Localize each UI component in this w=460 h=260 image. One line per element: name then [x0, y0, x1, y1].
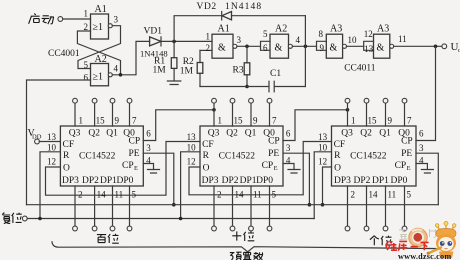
一 — [411, 246, 418, 248]
svg-text:DP0: DP0 — [117, 176, 134, 186]
svg-text:5: 5 — [272, 190, 277, 200]
nand gate A3 (first) CC4011 — [317, 24, 347, 59]
svg-text:CP: CP — [122, 161, 134, 171]
svg-text:E: E — [407, 165, 411, 172]
IC U3 CC14522 (units counter) — [332, 126, 417, 186]
置 — [243, 252, 251, 259]
node VDD terminal — [28, 128, 42, 144]
IC3 top pins Q3 Q2 Q1 Q0 with terminals — [345, 98, 407, 126]
svg-text:14: 14 — [235, 190, 245, 200]
svg-text:CC14522: CC14522 — [219, 152, 256, 162]
svg-text:1: 1 — [206, 32, 211, 42]
svg-text:2: 2 — [351, 190, 356, 200]
svg-text:10: 10 — [47, 143, 57, 153]
junction VD1/R1/VD2 node — [172, 40, 176, 44]
svg-text:www.dzsc.com: www.dzsc.com — [398, 252, 451, 260]
svg-text:9: 9 — [115, 116, 120, 126]
svg-text:VD2: VD2 — [197, 2, 217, 12]
svg-text:12: 12 — [187, 157, 196, 167]
svg-text:CP: CP — [129, 137, 141, 147]
wire A2 pin6 from preset bus — [27, 80, 91, 205]
IC U1 CC14522 (hundreds counter) — [60, 126, 143, 186]
wire IC3 O pin12 to preset bus — [323, 167, 332, 205]
svg-text:13: 13 — [364, 44, 374, 54]
svg-text:PE: PE — [268, 149, 279, 159]
svg-text:10: 10 — [187, 143, 197, 153]
node 个位 (units digit) label — [370, 236, 392, 246]
svg-text:O: O — [334, 164, 341, 174]
IC1 top pins Q3 Q2 Q1 Q0 with terminals — [73, 98, 132, 126]
junction R3 top — [245, 45, 249, 49]
svg-text:6: 6 — [286, 129, 291, 139]
wire A3b out to Uo terminal — [394, 45, 442, 47]
svg-text:10: 10 — [318, 143, 328, 153]
node 启动 (start) terminal — [29, 14, 63, 24]
svg-text:Q2: Q2 — [360, 129, 372, 139]
junction IC3 Q3 node — [346, 108, 350, 112]
junction IC1 R on reset line — [38, 217, 42, 221]
svg-text:7: 7 — [132, 116, 137, 126]
wire IC1 R pin10 to reset line — [40, 152, 60, 219]
svg-text:CF: CF — [63, 140, 75, 150]
junction IC2 PE on bus — [308, 203, 312, 207]
node 复位 (reset) terminal — [2, 213, 27, 224]
wire IC1 O pin12 to IC2 CF pin13 — [46, 142, 201, 196]
svg-text:12: 12 — [364, 29, 373, 39]
svg-text:2: 2 — [78, 190, 83, 200]
数 — [253, 252, 263, 260]
svg-text:10: 10 — [348, 35, 358, 45]
svg-text:R: R — [203, 151, 210, 161]
svg-text:4: 4 — [114, 64, 119, 74]
wire A2 output to VD1 — [112, 41, 149, 74]
resistor R2 1M — [180, 50, 203, 86]
svg-text:3: 3 — [286, 143, 291, 153]
wire IC2 PE pin3 to preset bus — [283, 153, 309, 205]
node 十位 (tens digit) label — [232, 231, 254, 241]
resistor R1 1M — [153, 41, 177, 80]
svg-text:DP0: DP0 — [256, 176, 273, 186]
位 — [12, 213, 22, 223]
svg-text:CP: CP — [262, 161, 274, 171]
svg-text:9: 9 — [388, 116, 393, 126]
svg-text:13: 13 — [187, 132, 197, 142]
svg-text:≥1: ≥1 — [93, 22, 104, 33]
svg-text:O: O — [63, 164, 70, 174]
nand gate A2 CC4011 — [261, 24, 293, 59]
svg-text:1: 1 — [351, 116, 356, 126]
svg-text:CP: CP — [268, 137, 280, 147]
svg-text:PE: PE — [129, 149, 140, 159]
svg-text:VD1: VD1 — [144, 27, 163, 37]
svg-text:1: 1 — [218, 116, 223, 126]
svg-text:6: 6 — [84, 73, 89, 83]
resistor R3 — [233, 46, 250, 86]
svg-text:&: & — [275, 43, 283, 54]
svg-text:DP2: DP2 — [354, 176, 371, 186]
svg-text:7: 7 — [272, 116, 277, 126]
svg-text:14: 14 — [369, 190, 379, 200]
diode VD1 1N4148 — [140, 27, 168, 59]
wire IC2 CPE pin4 to ground — [283, 164, 294, 170]
svg-text:14: 14 — [97, 190, 107, 200]
junction VD2/C1/A3 node — [304, 45, 308, 49]
svg-text:2: 2 — [206, 43, 211, 53]
junction Uo feedback node — [434, 45, 438, 49]
svg-text:E: E — [134, 165, 138, 172]
svg-text:DP0: DP0 — [391, 176, 408, 186]
watermark 维库一下 red text — [386, 241, 429, 250]
svg-text:A1: A1 — [218, 24, 230, 35]
wire IC2 CP pin6 from IC3 Q3 — [283, 110, 348, 141]
ground IC2 CPE — [288, 170, 300, 174]
svg-text:PE: PE — [401, 149, 412, 159]
ground below R1 — [167, 81, 180, 85]
svg-text:R: R — [63, 151, 70, 161]
位 — [244, 231, 255, 241]
svg-text:DP2: DP2 — [222, 176, 239, 186]
svg-text:6: 6 — [263, 43, 268, 53]
gate A2 CC4001 NOR — [91, 54, 113, 86]
svg-text:DP1: DP1 — [240, 176, 257, 186]
svg-text:13: 13 — [47, 132, 57, 142]
node 百位 (hundreds digit) label — [97, 234, 119, 243]
svg-text:2: 2 — [217, 190, 222, 200]
svg-text:DP2: DP2 — [82, 176, 99, 186]
svg-text:12: 12 — [47, 157, 56, 167]
svg-text:11: 11 — [388, 190, 397, 200]
svg-text:Q3: Q3 — [208, 129, 220, 139]
svg-text:CC4011: CC4011 — [344, 64, 376, 74]
svg-text:15: 15 — [368, 116, 378, 126]
svg-text:1: 1 — [84, 9, 89, 19]
svg-text:A2: A2 — [275, 24, 287, 35]
复 — [2, 213, 10, 224]
junction A2 output node — [119, 73, 123, 77]
svg-text:A3: A3 — [377, 24, 389, 35]
brace for 预置数 (preset number) — [52, 242, 450, 252]
wire A2 out to A3 in — [292, 45, 316, 47]
svg-text:4: 4 — [296, 35, 301, 45]
svg-text:Q3: Q3 — [69, 129, 81, 139]
svg-text:R3: R3 — [233, 66, 244, 76]
svg-text:8: 8 — [319, 29, 324, 39]
svg-text:11: 11 — [253, 190, 262, 200]
svg-text:CF: CF — [202, 140, 214, 150]
svg-text:DD: DD — [32, 134, 42, 141]
svg-text:3: 3 — [114, 15, 119, 25]
svg-text:1: 1 — [79, 116, 84, 126]
node Uo output terminal — [442, 41, 460, 54]
svg-text:DP3: DP3 — [202, 176, 219, 186]
svg-text:15: 15 — [96, 116, 106, 126]
wire Uo node down to IC3 CP — [416, 46, 436, 140]
svg-text:Q2: Q2 — [226, 129, 238, 139]
svg-text:&: & — [218, 43, 226, 54]
svg-text:3: 3 — [146, 143, 151, 153]
svg-text:5: 5 — [263, 29, 268, 39]
svg-text:Q1: Q1 — [379, 129, 391, 139]
svg-text:CP: CP — [395, 161, 407, 171]
svg-text:A3: A3 — [330, 24, 342, 35]
位 — [381, 236, 392, 246]
svg-text:5: 5 — [132, 190, 137, 200]
ground IC3 CPE — [421, 170, 433, 174]
IC2 bottom pins DP3 DP2 DP1 DP0 with terminals — [212, 186, 272, 231]
svg-text:DP1: DP1 — [372, 176, 389, 186]
wire A1 out to A2 in — [237, 45, 261, 47]
svg-text:Q3: Q3 — [341, 129, 353, 139]
IC U2 CC14522 (tens counter) — [200, 126, 283, 186]
wire IC1 CP pin6 from IC2 Q3 — [143, 110, 214, 141]
wire VDD to IC1 CF pin13 — [39, 141, 60, 143]
位 — [108, 234, 119, 243]
动 — [42, 16, 54, 24]
wire 启动 to A1 pin1 — [63, 18, 91, 20]
watermark seal (dzsc stamp) — [399, 228, 436, 246]
svg-text:9: 9 — [253, 116, 258, 126]
svg-text:5: 5 — [407, 190, 412, 200]
svg-text:Q1: Q1 — [106, 129, 118, 139]
svg-text:11: 11 — [398, 34, 407, 44]
svg-text:&: & — [330, 43, 338, 54]
wire A3a out to A3b in — [346, 45, 363, 47]
wire IC1 CPE pin4 to ground — [143, 164, 153, 170]
gate A1 CC4001 NOR — [91, 4, 113, 39]
svg-text:E: E — [274, 165, 278, 172]
node 预置数 label — [230, 252, 263, 260]
nand gate A3 (second) CC4011 — [364, 24, 394, 59]
svg-text:CC14522: CC14522 — [350, 152, 387, 162]
百 — [97, 235, 106, 243]
watermark mascot (monkey) — [427, 221, 456, 258]
capacitor C1 — [200, 69, 305, 92]
下 — [420, 242, 428, 250]
svg-text:R: R — [334, 151, 341, 161]
预 — [230, 252, 242, 260]
wire preset bus (PE/O common line) — [27, 204, 439, 206]
wire R2 top to A1(4011) pin2 — [200, 49, 212, 51]
wire IC3 CPE pin4 to ground — [416, 164, 427, 170]
svg-text:15: 15 — [234, 116, 244, 126]
svg-text:DP3: DP3 — [334, 176, 351, 186]
wire VD2 node down to C1 — [304, 16, 306, 87]
wire reset line to counters R pins — [27, 218, 314, 220]
ground IC1 CPE — [148, 170, 160, 174]
维 — [386, 241, 397, 250]
个 — [370, 236, 379, 246]
svg-text:6: 6 — [146, 129, 151, 139]
svg-text:1N4148: 1N4148 — [225, 2, 262, 12]
nand gate A1 CC4011 — [212, 24, 237, 59]
svg-text:A1: A1 — [95, 4, 107, 15]
svg-text:3: 3 — [419, 143, 424, 153]
svg-text:3: 3 — [237, 35, 242, 45]
库 — [398, 241, 407, 250]
wire IC3 R pin10 from reset line — [314, 152, 331, 219]
svg-text:Q2: Q2 — [88, 129, 100, 139]
svg-text:DP1: DP1 — [100, 176, 117, 186]
svg-text:C1: C1 — [270, 69, 281, 79]
启 — [29, 14, 40, 24]
svg-text:O: O — [203, 164, 210, 174]
junction IC3 O on bus — [321, 203, 325, 207]
svg-text:≥1: ≥1 — [93, 72, 104, 83]
IC2 top pins Q3 Q2 Q1 Q0 with terminals — [212, 98, 272, 126]
svg-text:12: 12 — [318, 157, 327, 167]
wire A1 out cross-couple to A2 pin5 — [78, 26, 121, 69]
IC3 bottom pins DP3 DP2 DP1 DP0 with terminals — [345, 186, 407, 231]
svg-text:1M: 1M — [153, 66, 167, 76]
svg-text:13: 13 — [318, 132, 328, 142]
wire IC2 R pin10 to reset line — [181, 152, 200, 219]
diode VD2 1N4148 — [174, 2, 305, 41]
wire IC1 PE pin3 to preset bus — [143, 153, 174, 205]
svg-text:9: 9 — [320, 43, 325, 53]
svg-text:CC4001: CC4001 — [48, 49, 80, 59]
svg-text:Q1: Q1 — [245, 129, 257, 139]
svg-text:CC14522: CC14522 — [79, 152, 116, 162]
svg-text:11: 11 — [115, 190, 124, 200]
wire A2 out cross-couple to A1 pin2 — [77, 31, 120, 75]
十 — [232, 231, 241, 240]
IC1 bottom pins DP3 DP2 DP1 DP0 with terminals — [73, 186, 132, 231]
svg-text:A2: A2 — [95, 54, 107, 65]
junction IC2 R on reset line — [179, 217, 183, 221]
junction IC2 Q3 node — [212, 108, 216, 112]
svg-text:6: 6 — [419, 129, 424, 139]
wire IC3 PE pin3 to preset bus right end — [416, 153, 438, 205]
svg-text:1M: 1M — [180, 67, 194, 77]
svg-text:CF: CF — [334, 140, 346, 150]
wire IC2 O pin12 to IC3 CF pin13 — [189, 142, 332, 195]
junction IC1 PE on bus — [172, 203, 176, 207]
junction R3 bottom — [245, 85, 249, 89]
svg-text:CP: CP — [401, 137, 413, 147]
svg-text:DP3: DP3 — [62, 176, 79, 186]
svg-text:7: 7 — [407, 116, 412, 126]
svg-text:R2: R2 — [183, 57, 194, 67]
wire VD1 to node — [161, 40, 212, 42]
svg-text:&: & — [377, 43, 385, 54]
